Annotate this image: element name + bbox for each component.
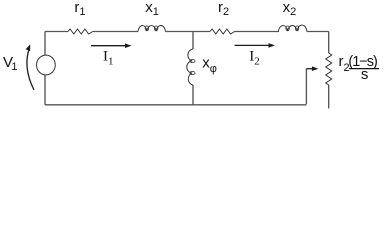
svg-text:V1: V1: [3, 54, 18, 73]
svg-text:I2: I2: [249, 49, 260, 68]
svg-text:x1: x1: [145, 0, 159, 18]
svg-text:I1: I1: [103, 49, 114, 68]
svg-text:r1: r1: [74, 0, 85, 18]
svg-text:s: s: [361, 66, 369, 83]
svg-text:xφ: xφ: [202, 55, 217, 76]
svg-text:r2: r2: [218, 0, 229, 18]
svg-text:x2: x2: [283, 0, 297, 18]
